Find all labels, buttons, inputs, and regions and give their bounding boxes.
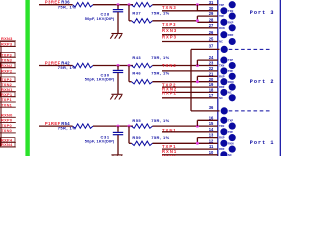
wire TXP2 to pin [162, 86, 218, 88]
resistor R43 [132, 63, 153, 67]
capacitor C31 [113, 132, 123, 134]
wire stub RXN0 [0, 116, 16, 118]
left vertical wire [0, 46, 2, 146]
svg-text:R59: R59 [132, 135, 141, 140]
wire stub TXP0 [0, 127, 16, 129]
pin 27 circle [229, 24, 236, 31]
wire stub RXP3 [0, 46, 16, 48]
svg-text:17: 17 [209, 93, 214, 98]
junction cap tap [117, 3, 120, 6]
svg-text:TXN3: TXN3 [1, 58, 13, 63]
svg-text:NC: NC [219, 96, 223, 100]
svg-text:27: 27 [209, 23, 214, 28]
wire stub TXP3 [0, 56, 16, 58]
wire cap bottom lead [117, 73, 119, 95]
svg-text:24: 24 [209, 55, 214, 60]
wire R55 output [153, 125, 218, 127]
wire jog to adjacent pin [197, 59, 217, 61]
wire stub RXP0 [0, 122, 16, 124]
svg-text:37: 37 [209, 44, 214, 49]
svg-text:RXP: RXP [219, 136, 225, 140]
wire jog vertical 1 [196, 120, 198, 126]
net label TXP3 [0, 53, 15, 58]
ground [110, 155, 122, 160]
pin 37 wire [191, 48, 220, 50]
wire stub TXN3 [0, 61, 16, 63]
svg-text:NC: NC [219, 40, 223, 44]
pin 31 circle [229, 1, 236, 8]
svg-text:R46: R46 [132, 70, 141, 75]
wire P3REF to R36 [39, 4, 73, 6]
pin 21 circle [229, 73, 236, 80]
pin 28 circle [220, 19, 227, 26]
wire stub pin [197, 75, 217, 77]
svg-text:31: 31 [209, 0, 214, 5]
svg-text:11: 11 [209, 144, 214, 149]
resistor R54 [73, 124, 93, 128]
capacitor C30 [113, 70, 123, 72]
svg-text:TXN3: TXN3 [162, 5, 177, 10]
wire stub pin [197, 137, 217, 139]
wire stub RXN2 [0, 67, 16, 69]
resistor R38 [132, 3, 153, 7]
wire stub TXN0 [0, 132, 16, 134]
svg-text:RXP2: RXP2 [162, 91, 177, 96]
wire RXP2 to pin [162, 97, 218, 99]
svg-text:75R, 1%: 75R, 1% [151, 118, 170, 123]
junction R46 drop [128, 64, 131, 67]
wire P2REF to R42 [39, 65, 73, 67]
net label RXP4 [0, 138, 15, 143]
junction rowA [196, 64, 199, 67]
wire shield vertical [190, 49, 192, 111]
pin 16 circle [220, 117, 227, 124]
resistor R42 [73, 63, 93, 67]
svg-text:21: 21 [209, 71, 214, 76]
connector J1 right edge [279, 0, 281, 156]
svg-text:RXN3: RXN3 [1, 36, 13, 41]
pin 13 circle [229, 134, 236, 141]
pin 17 circle [229, 94, 236, 101]
svg-text:RXP2: RXP2 [1, 68, 13, 73]
svg-text:RXN: RXN [228, 80, 234, 84]
svg-text:TXP: TXP [228, 58, 233, 62]
wire jog to adjacent pin [197, 119, 217, 121]
svg-text:75R, 1%: 75R, 1% [151, 135, 170, 140]
svg-text:RRF: RRF [219, 85, 225, 89]
svg-text:RXN4: RXN4 [1, 142, 13, 147]
pin 22 circle [220, 67, 227, 74]
wire jog vertical 2 [196, 76, 198, 81]
pin 24 circle [220, 57, 227, 64]
svg-text:RXP3: RXP3 [1, 42, 13, 47]
svg-text:RXN: RXN [219, 26, 225, 30]
wire jog to adjacent pin [197, 10, 217, 12]
wire TXN1 to pin [162, 131, 218, 133]
wire stub RXN4 [0, 146, 16, 148]
svg-text:50pF, 1KV(DIP): 50pF, 1KV(DIP) [85, 78, 115, 82]
svg-text:22: 22 [209, 66, 214, 71]
pin 15 circle [229, 123, 236, 130]
svg-text:R55: R55 [132, 118, 141, 123]
svg-text:13: 13 [209, 133, 214, 138]
wire jog vertical 1 [196, 5, 198, 11]
pin 37 circle [221, 46, 228, 53]
wire cap bottom lead [117, 12, 119, 33]
pin 29 circle [229, 13, 236, 20]
pin 36 circle [221, 107, 228, 114]
svg-text:RXP1: RXP1 [162, 154, 177, 156]
wire stub RXN1 [0, 91, 16, 93]
wire R43 output [153, 65, 218, 67]
svg-text:RRF: RRF [228, 33, 234, 37]
pin 36 wire [191, 110, 220, 112]
pin 11 circle [229, 146, 236, 153]
wire cap bottom lead [117, 135, 119, 155]
wire RXN1 to pin [162, 154, 218, 156]
wire jog vertical 2 [196, 138, 198, 144]
svg-text:C31: C31 [101, 134, 110, 139]
junction rowB [196, 19, 199, 22]
svg-text:Port 3: Port 3 [250, 10, 275, 16]
wire jog vertical 1 [196, 60, 198, 65]
junction rowB [196, 80, 199, 83]
wire cap top lead [117, 66, 119, 70]
wire P1REF to R54 [39, 125, 73, 127]
svg-text:TRF: TRF [228, 69, 233, 73]
wire RXN2 to pin [162, 91, 218, 93]
pin 37 dashed no-connect line [229, 48, 271, 50]
svg-text:19: 19 [209, 82, 214, 87]
pin 12 circle [220, 140, 227, 147]
junction rowA [196, 125, 199, 128]
svg-text:50pF, 1KV(DIP): 50pF, 1KV(DIP) [85, 140, 115, 144]
junction R37 drop [128, 3, 131, 6]
wire stub RXP4 [0, 141, 16, 143]
resistor R37 [132, 19, 153, 23]
svg-text:RXN: RXN [228, 141, 234, 145]
svg-text:75R, 1%: 75R, 1% [151, 55, 170, 60]
svg-text:50pF, 1KV(DIP): 50pF, 1KV(DIP) [85, 17, 115, 21]
pin 30 circle [220, 7, 227, 14]
pin 26 circle [220, 31, 227, 38]
svg-text:RXN2: RXN2 [1, 63, 13, 68]
pin 25 circle [229, 38, 236, 45]
junction R59 drop [128, 125, 131, 128]
wire stub RXP1 [0, 96, 16, 98]
wire R38 output [153, 4, 218, 6]
svg-text:Port 1: Port 1 [250, 140, 275, 146]
pin 20 circle [220, 78, 227, 85]
wire drop to R59 [128, 126, 130, 143]
svg-text:26: 26 [209, 30, 214, 35]
resistor R46 [132, 80, 153, 84]
wire stub TXN2 [0, 86, 16, 88]
wire R54 to R55 [93, 125, 133, 127]
pin 10 circle [220, 151, 227, 158]
svg-text:RRF: RRF [219, 147, 225, 151]
svg-text:23: 23 [209, 61, 214, 66]
svg-text:NC: NC [228, 91, 232, 95]
wire R36 to R38 [93, 4, 133, 6]
svg-text:TRF: TRF [219, 14, 224, 18]
wire R42 to R43 [93, 65, 133, 67]
green vertical line [25, 0, 29, 156]
junction cap tap [117, 64, 120, 67]
svg-text:TXN2: TXN2 [162, 63, 177, 68]
svg-text:10: 10 [209, 150, 214, 155]
resistor R59 [132, 141, 153, 145]
wire cap top lead [117, 126, 119, 132]
svg-text:30: 30 [209, 6, 214, 11]
net label RXP1 [0, 92, 15, 97]
svg-text:R43: R43 [132, 55, 141, 60]
svg-text:TXN0: TXN0 [1, 128, 12, 133]
svg-text:18: 18 [209, 88, 214, 93]
net label TXP2 [0, 77, 15, 82]
wire R37 output [153, 20, 198, 22]
pin 14 circle [220, 128, 227, 135]
svg-text:C28: C28 [101, 12, 110, 17]
pin 18 circle [220, 89, 227, 96]
svg-text:TXN: TXN [219, 64, 224, 68]
wire TXP3 to pin [162, 27, 218, 29]
ground [110, 94, 122, 99]
svg-text:29: 29 [209, 11, 214, 16]
svg-text:12: 12 [209, 138, 214, 143]
svg-text:TXN1: TXN1 [1, 102, 13, 107]
svg-text:TXP: TXP [219, 3, 224, 7]
wire drop to R37 [128, 5, 130, 21]
wire drop to R46 [128, 66, 130, 82]
wire RXN3 to pin [162, 34, 218, 36]
svg-text:R37: R37 [132, 10, 141, 15]
svg-text:C30: C30 [101, 72, 110, 77]
wire stub TXP2 [0, 81, 16, 83]
wire cap top lead [117, 5, 119, 9]
wire R46 output [153, 81, 198, 83]
svg-text:TXP: TXP [228, 118, 233, 122]
capacitor C28 [113, 10, 123, 12]
wire rowB jog down [196, 21, 198, 23]
connector J1 left edge [217, 0, 219, 156]
svg-text:14: 14 [209, 127, 214, 132]
wire stub pin [197, 15, 217, 17]
net label RXN4 [0, 142, 15, 147]
wire TXN2 to pin [162, 70, 218, 72]
svg-text:TXN: TXN [219, 124, 224, 128]
resistor R36 [73, 3, 93, 7]
pin 36 dashed no-connect line [229, 110, 271, 112]
junction rowA [196, 3, 199, 6]
junction cap tap [117, 125, 120, 128]
wire stub RXN3 [0, 40, 16, 42]
net label RXN2 [0, 63, 15, 68]
resistor R55 [132, 124, 153, 128]
svg-text:20: 20 [209, 77, 214, 82]
wire stub RXP2 [0, 72, 16, 74]
pin 23 circle [229, 62, 236, 69]
svg-text:TXP3: TXP3 [162, 22, 176, 27]
svg-text:RXP: RXP [219, 74, 225, 78]
svg-text:Port 2: Port 2 [250, 79, 275, 85]
svg-text:RXP3: RXP3 [162, 34, 177, 39]
svg-text:28: 28 [209, 17, 214, 22]
junction rowB [196, 142, 199, 145]
wire stub TXP1 [0, 101, 16, 103]
wire jog vertical 2 [196, 16, 198, 21]
net label RXP3 [0, 42, 15, 47]
svg-text:16: 16 [209, 115, 214, 120]
svg-text:36: 36 [209, 105, 214, 110]
wire stub TXN1 [0, 106, 16, 108]
svg-text:NC: NC [228, 153, 232, 156]
svg-text:RXN3: RXN3 [162, 28, 177, 33]
svg-text:15: 15 [209, 121, 214, 126]
wire R59 output [153, 142, 198, 144]
svg-text:25: 25 [209, 37, 214, 42]
wire TXN3 to pin [162, 10, 218, 12]
ground [110, 34, 122, 39]
wire TXP1 to pin [162, 148, 218, 150]
svg-text:RXP: RXP [228, 20, 234, 24]
pin 19 circle [229, 84, 236, 91]
svg-text:TRF: TRF [228, 130, 233, 134]
wire RXP3 to pin [162, 41, 218, 43]
svg-text:TXN: TXN [228, 9, 233, 13]
